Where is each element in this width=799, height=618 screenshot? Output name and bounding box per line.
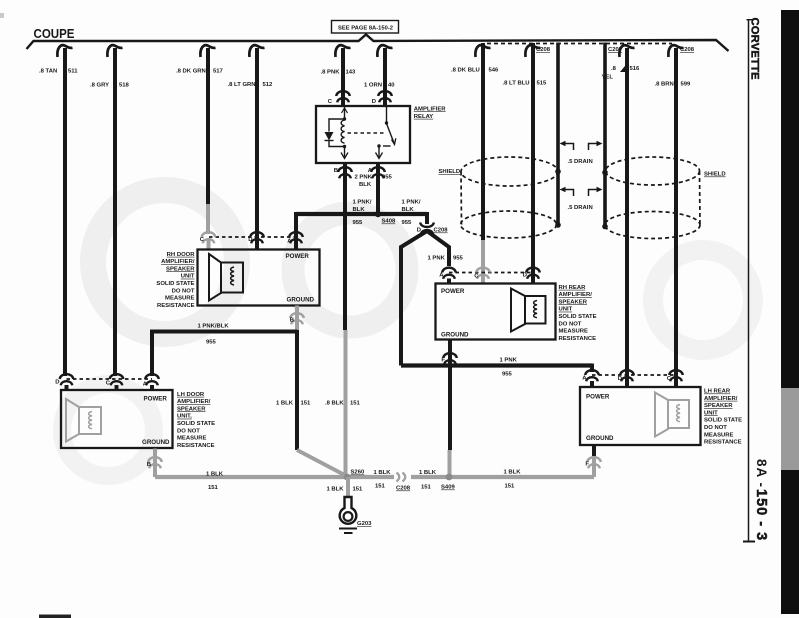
svg-text:.8 BLK: .8 BLK: [325, 401, 344, 407]
svg-text:RESISTANCE: RESISTANCE: [177, 443, 215, 449]
svg-text:C: C: [667, 376, 672, 382]
svg-text:GROUND: GROUND: [586, 435, 614, 442]
svg-text:151: 151: [421, 485, 432, 491]
svg-text:MEASURE: MEASURE: [165, 296, 195, 302]
svg-text:517: 517: [213, 69, 224, 75]
svg-text:UNIT,: UNIT,: [177, 414, 192, 420]
svg-text:DO NOT: DO NOT: [559, 321, 582, 327]
svg-text:D: D: [618, 376, 622, 382]
svg-text:1 PNK: 1 PNK: [500, 358, 518, 364]
svg-text:MEASURE: MEASURE: [559, 329, 589, 335]
svg-text:1 PNK/BLK: 1 PNK/BLK: [198, 324, 230, 330]
svg-text:SPEAKER: SPEAKER: [166, 266, 195, 272]
svg-text:.8 BRN: .8 BRN: [655, 82, 674, 88]
svg-text:.8 GRY: .8 GRY: [90, 82, 109, 88]
svg-text:RESISTANCE: RESISTANCE: [559, 336, 597, 342]
svg-text:POWER: POWER: [586, 394, 610, 401]
svg-text:SEE PAGE 8A-150-2: SEE PAGE 8A-150-2: [338, 26, 393, 32]
svg-text:B: B: [290, 318, 294, 324]
svg-text:AMPLIFIER/: AMPLIFIER/: [704, 396, 738, 402]
svg-text:A: A: [439, 273, 444, 279]
svg-text:A: A: [287, 239, 292, 245]
svg-text:POWER: POWER: [144, 396, 168, 403]
svg-text:512: 512: [263, 82, 274, 88]
svg-text:DO NOT: DO NOT: [704, 425, 727, 431]
svg-text:SPEAKER: SPEAKER: [177, 406, 206, 412]
svg-text:955: 955: [382, 175, 393, 181]
svg-text:515: 515: [537, 81, 548, 87]
svg-text:AMPLIFIER/: AMPLIFIER/: [161, 259, 195, 265]
svg-text:GROUND: GROUND: [287, 297, 315, 304]
svg-text:RESISTANCE: RESISTANCE: [157, 303, 195, 309]
svg-text:A: A: [368, 168, 373, 174]
svg-text:C: C: [200, 237, 205, 243]
svg-text:40: 40: [388, 83, 395, 89]
svg-text:RH DOOR: RH DOOR: [167, 252, 196, 258]
svg-text:A: A: [582, 376, 587, 382]
svg-text:151: 151: [505, 484, 516, 490]
svg-text:B: B: [334, 168, 338, 174]
svg-text:SHIELD: SHIELD: [704, 172, 726, 178]
svg-text:C208: C208: [536, 47, 551, 53]
svg-text:1 PNK/: 1 PNK/: [353, 200, 372, 206]
svg-text:516: 516: [630, 66, 641, 72]
svg-text:955: 955: [206, 340, 217, 346]
svg-text:BLK: BLK: [353, 207, 366, 213]
svg-text:RH REAR: RH REAR: [559, 285, 587, 291]
svg-text:COUPE: COUPE: [34, 26, 75, 41]
svg-text:C208: C208: [396, 486, 411, 492]
svg-text:F: F: [585, 462, 589, 468]
svg-text:GROUND: GROUND: [441, 332, 469, 339]
svg-text:AMPLIFIER/: AMPLIFIER/: [177, 399, 211, 405]
svg-text:SOLID STATE: SOLID STATE: [177, 421, 215, 427]
svg-text:SPEAKER: SPEAKER: [559, 299, 588, 305]
svg-text:.8: .8: [611, 66, 617, 72]
svg-text:955: 955: [502, 372, 513, 378]
svg-text:POWER: POWER: [441, 288, 465, 295]
svg-text:1 BLK: 1 BLK: [504, 470, 522, 476]
svg-text:F: F: [441, 358, 445, 364]
svg-text:.5 DRAIN: .5 DRAIN: [568, 159, 593, 165]
svg-text:1 BLK: 1 BLK: [276, 401, 294, 407]
svg-text:UNIT: UNIT: [704, 410, 718, 416]
svg-text:SHIELD: SHIELD: [439, 169, 461, 175]
svg-text:955: 955: [453, 256, 464, 262]
svg-text:YEL: YEL: [602, 75, 614, 81]
svg-text:.5 DRAIN: .5 DRAIN: [568, 205, 593, 211]
svg-text:143: 143: [346, 70, 357, 76]
svg-text:518: 518: [119, 82, 130, 88]
svg-text:.8 PNK: .8 PNK: [321, 70, 341, 76]
svg-text:599: 599: [681, 82, 692, 88]
svg-text:AMPLIFIER/: AMPLIFIER/: [559, 292, 593, 298]
svg-text:.8 LT BLU: .8 LT BLU: [503, 81, 530, 87]
svg-text:SOLID STATE: SOLID STATE: [704, 418, 742, 424]
svg-text:SOLID STATE: SOLID STATE: [559, 314, 597, 320]
svg-text:511: 511: [68, 69, 78, 75]
svg-text:1 ORN: 1 ORN: [364, 83, 382, 89]
svg-text:D: D: [417, 228, 421, 234]
svg-text:D: D: [372, 99, 376, 105]
svg-text:S409: S409: [441, 485, 455, 491]
svg-text:C207: C207: [608, 47, 623, 53]
svg-text:.8 DK BLU: .8 DK BLU: [451, 68, 480, 74]
svg-text:S408: S408: [382, 219, 396, 225]
svg-text:.8 DK GRN: .8 DK GRN: [176, 69, 206, 75]
svg-text:B: B: [147, 462, 151, 468]
svg-text:DO NOT: DO NOT: [172, 288, 195, 294]
svg-text:LH REAR: LH REAR: [704, 389, 731, 395]
svg-text:C: C: [474, 274, 479, 280]
svg-text:AMPLIFIER: AMPLIFIER: [414, 106, 446, 112]
svg-text:1 BLK: 1 BLK: [326, 487, 344, 493]
svg-text:POWER: POWER: [286, 253, 310, 260]
svg-text:RELAY: RELAY: [414, 114, 433, 120]
svg-text:151: 151: [301, 401, 312, 407]
svg-text:S260: S260: [351, 470, 365, 476]
svg-text:MEASURE: MEASURE: [177, 436, 207, 442]
svg-text:955: 955: [402, 220, 413, 226]
svg-text:8A -: 8A -: [754, 459, 769, 488]
svg-text:1 PNK: 1 PNK: [428, 256, 446, 262]
svg-text:MEASURE: MEASURE: [704, 432, 734, 438]
svg-text:BLK: BLK: [402, 207, 415, 213]
svg-text:C: C: [328, 99, 333, 105]
svg-text:151: 151: [208, 485, 219, 491]
svg-text:GROUND: GROUND: [142, 439, 170, 446]
svg-text:.8 LT GRN: .8 LT GRN: [228, 82, 256, 88]
svg-text:A: A: [143, 382, 148, 388]
svg-text:SPEAKER: SPEAKER: [704, 403, 733, 409]
svg-text:.8 TAN: .8 TAN: [39, 69, 57, 75]
svg-text:LH DOOR: LH DOOR: [177, 392, 205, 398]
svg-text:BLK: BLK: [359, 182, 372, 188]
svg-text:UNIT: UNIT: [559, 307, 573, 313]
svg-text:UNIT: UNIT: [181, 274, 195, 280]
svg-text:DO NOT: DO NOT: [177, 428, 200, 434]
svg-text:G203: G203: [357, 521, 372, 527]
svg-text:1 BLK: 1 BLK: [374, 470, 392, 476]
svg-text:151: 151: [350, 401, 361, 407]
svg-text:CORVETTE: CORVETTE: [749, 18, 761, 81]
svg-text:1 BLK: 1 BLK: [419, 470, 437, 476]
svg-text:RESISTANCE: RESISTANCE: [704, 440, 742, 446]
svg-text:151: 151: [353, 487, 364, 493]
svg-text:SOLID STATE: SOLID STATE: [156, 281, 194, 287]
svg-text:C: C: [106, 381, 111, 387]
svg-text:D: D: [248, 237, 252, 243]
svg-text:151: 151: [375, 484, 386, 490]
svg-text:1 PNK/: 1 PNK/: [402, 200, 421, 206]
svg-text:C208: C208: [434, 228, 449, 234]
svg-text:150 - 3: 150 - 3: [753, 489, 769, 541]
svg-text:2 PNK/: 2 PNK/: [355, 175, 374, 181]
svg-text:955: 955: [353, 220, 364, 226]
svg-text:C208: C208: [680, 47, 695, 53]
svg-text:D: D: [523, 273, 527, 279]
svg-text:546: 546: [489, 68, 500, 74]
svg-text:D: D: [55, 380, 59, 386]
svg-text:1 BLK: 1 BLK: [206, 472, 224, 478]
